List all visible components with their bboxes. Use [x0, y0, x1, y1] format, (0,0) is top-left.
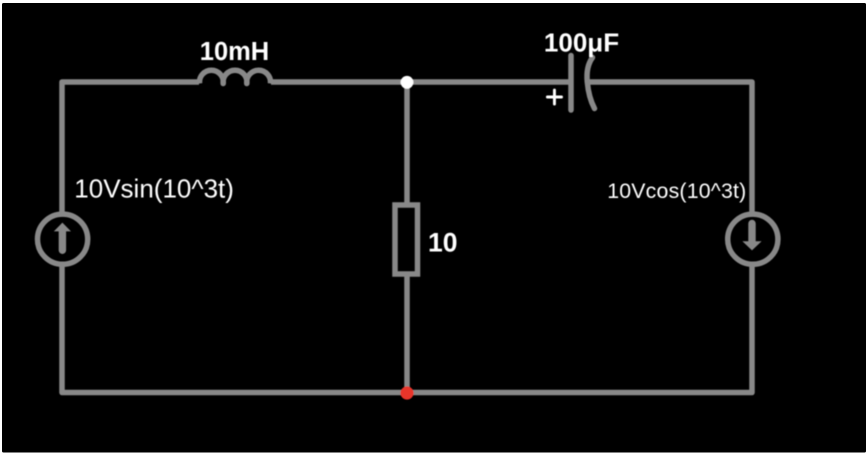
capacitor C1 right curved plate: [587, 58, 595, 109]
capacitor C1 left plate: [568, 56, 574, 111]
svg-text:10mH: 10mH: [200, 38, 269, 66]
resistor R1 (10 ohm): [395, 205, 418, 274]
wire top-left corner + left vertical upper segment: [62, 82, 199, 215]
node B (bottom junction, red dot): [400, 386, 413, 399]
svg-text:100μF: 100μF: [544, 27, 619, 57]
capacitor polarity + sign: [547, 90, 561, 104]
svg-text:10: 10: [428, 227, 457, 257]
wire left vertical lower + bottom + right vertical lower segment: [62, 264, 752, 393]
wire middle vertical lower (resistor to node): [404, 274, 410, 393]
svg-text:10Vcos(10^3t): 10Vcos(10^3t): [607, 179, 746, 203]
wire top middle segment (inductor to capacitor): [271, 79, 569, 85]
wire right vertical upper + top-right segment: [589, 82, 752, 215]
current source I1 circle: [38, 214, 88, 264]
node A (top junction, white dot): [401, 76, 414, 89]
inductor L1 (3 loops): [200, 70, 271, 83]
current source I2 arrow (down): [742, 220, 761, 251]
current source I1 arrow (up): [54, 223, 71, 254]
svg-text:10Vsin(10^3t): 10Vsin(10^3t): [74, 174, 234, 204]
wire middle vertical upper (node to resistor): [404, 82, 410, 205]
current source I2 circle: [728, 214, 778, 264]
